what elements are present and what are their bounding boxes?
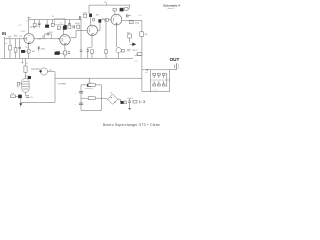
resistor R18 grid leak: [105, 50, 108, 53]
node rail left end: [28, 16, 31, 18]
svg-text:22k: 22k: [57, 29, 60, 31]
component box grid: [93, 19, 95, 21]
wire rail drop left: [88, 5, 90, 13]
wire right vertical to switch: [142, 90, 151, 92]
svg-text:br: br: [111, 91, 113, 94]
switch contacts: [151, 73, 170, 91]
diode D2: [121, 101, 124, 103]
capacitor C9 bars right: [68, 51, 71, 53]
svg-text:footswitch: footswitch: [85, 87, 93, 90]
resistor R2 to ground: [15, 39, 17, 48]
svg-text:OUT: OUT: [170, 57, 180, 62]
footswitch box: [151, 70, 170, 92]
capacitor C8: [69, 20, 71, 24]
capacitor C6 electrolytic: [46, 20, 48, 25]
resistor R13: [125, 8, 128, 11]
dc jack: [139, 100, 141, 103]
wire long horizontal: [55, 77, 142, 79]
wire input: [4, 38, 24, 40]
wire into box: [142, 69, 151, 71]
wire vertical mid: [54, 72, 56, 103]
component volume pot circle: [116, 48, 121, 53]
capacitor C15 electrolytic: [56, 52, 60, 55]
diode D1: [132, 43, 136, 47]
wire right vertical: [101, 85, 103, 111]
wire rail drop right: [129, 5, 131, 8]
resistor R15: [128, 34, 132, 38]
svg-text:C: C: [27, 21, 29, 23]
tube V2b: [111, 14, 122, 25]
svg-text:B: B: [52, 16, 54, 18]
capacitor C16 electrolytic: [28, 76, 31, 79]
wire V1b plate right: [70, 37, 76, 39]
svg-text:0V: 0V: [26, 63, 29, 65]
capacitor C2 cathode electrolytic: [26, 46, 29, 48]
capacitor C1: [19, 39, 21, 48]
svg-text:reg: reg: [49, 69, 53, 72]
capacitor C13: [126, 14, 128, 17]
svg-text:.01: .01: [19, 36, 23, 38]
component trim box: [17, 82, 20, 85]
resistor R5 drop: [34, 20, 36, 24]
svg-text:1W: 1W: [35, 26, 38, 28]
bridge rectifier BR1: [108, 94, 118, 104]
dc input cluster: [118, 98, 121, 100]
ground rail: [1, 57, 134, 59]
capacitor C3b bars: [46, 33, 48, 36]
resistor R1 to ground: [9, 39, 11, 46]
wire mid: [81, 98, 108, 99]
svg-text:9V: 9V: [17, 86, 20, 88]
svg-text:1k5: 1k5: [32, 51, 36, 53]
resistor R11 grid: [105, 19, 108, 22]
wire bottom: [21, 101, 55, 103]
svg-text:470k: 470k: [41, 48, 46, 50]
svg-text:250k: 250k: [75, 23, 80, 25]
svg-text:IC1: IC1: [11, 93, 14, 95]
resistor R19: [24, 66, 27, 72]
svg-text:25k: 25k: [144, 34, 148, 36]
capacitor C12 electrolytic: [120, 8, 124, 11]
resistor R4 grid stopper drop: [38, 47, 40, 51]
cathode network V2a: [91, 50, 94, 54]
wire down to tone: [141, 20, 143, 91]
svg-text:0.1u: 0.1u: [139, 15, 143, 17]
svg-text:68k: 68k: [14, 36, 18, 38]
capacitor C7 electrolytic: [64, 20, 66, 26]
wire: [25, 58, 27, 66]
resistor R12 plate: [113, 8, 116, 11]
svg-text:volume: volume: [135, 55, 143, 57]
svg-text:47u: 47u: [30, 97, 33, 99]
svg-text:9V DC: 9V DC: [127, 98, 134, 100]
capacitor C5: [38, 20, 40, 24]
svg-text:sheet 1: sheet 1: [168, 7, 176, 10]
tube V2a: [87, 25, 97, 35]
capacitor C19 electrolytic: [128, 100, 131, 102]
resistor R6: [52, 20, 54, 24]
svg-text:B+: B+: [105, 2, 108, 4]
tube V1b: [60, 35, 70, 45]
capacitor C20 electrolytic: [18, 95, 21, 98]
output jack J2: [175, 63, 177, 69]
wire V2b plate right: [122, 19, 142, 21]
resistor R22: [133, 100, 137, 103]
input jack J1: [3, 37, 5, 58]
svg-text:IN: IN: [2, 31, 6, 36]
resistor R17: [137, 53, 142, 56]
resistor R21: [88, 97, 95, 100]
svg-text:.022: .022: [49, 32, 54, 34]
capacitor C10: [79, 16, 81, 19]
wire bottom: [81, 109, 102, 111]
resistor R9 series: [68, 25, 71, 28]
node B+ tick: [106, 3, 108, 5]
tube V1a: [24, 34, 34, 44]
capacitor C14: [80, 49, 83, 51]
svg-text:+: +: [75, 93, 77, 95]
component pot P2: [87, 84, 92, 87]
ground symbol 2: [19, 103, 22, 105]
capacitor C21: [26, 95, 29, 97]
resistor R8 cathode: [64, 51, 67, 55]
svg-text:1 2 3: 1 2 3: [153, 89, 157, 91]
wire coupling V1a-V1b: [34, 38, 60, 40]
bottom-left cluster: [25, 95, 27, 97]
svg-text:100k: 100k: [135, 22, 140, 24]
wire B+ top rail: [89, 4, 130, 6]
resistor R23: [11, 95, 16, 98]
wire V2a plate to V2b: [98, 20, 101, 30]
capacitor C17: [79, 90, 83, 92]
svg-text:1M: 1M: [8, 37, 11, 39]
wire left vertical: [80, 85, 82, 111]
svg-text:to fs: to fs: [134, 60, 137, 63]
resistor R7 plate: [58, 26, 61, 29]
ground marker 0V: [21, 58, 23, 62]
svg-text:POWER: POWER: [58, 84, 66, 86]
transistor Q1 circle with dot: [40, 68, 47, 75]
capacitor C4 cathode electrolytic: [55, 52, 59, 55]
svg-text:220: 220: [19, 25, 22, 27]
svg-text:47n: 47n: [96, 14, 99, 16]
svg-text:+: +: [75, 104, 77, 106]
svg-text:Schematic 4: Schematic 4: [163, 3, 180, 7]
tube V3 (pill with stripes): [22, 78, 29, 92]
ground symbol: [129, 106, 131, 108]
svg-text:Bolero Supercharger GT3 + Clea: Bolero Supercharger GT3 + Clean: [103, 123, 160, 127]
component relay box: [55, 19, 66, 25]
capacitor C3 coupling: [42, 35, 44, 39]
wire top: [81, 84, 102, 86]
svg-text:1M: 1M: [132, 50, 135, 52]
svg-text:sw1: sw1: [145, 72, 148, 74]
capacitor C18: [79, 102, 83, 104]
resistor R3 cathode: [27, 49, 30, 53]
resistor R16: [140, 32, 144, 37]
wire B rail (second supply node): [29, 19, 82, 21]
resistor R14: [130, 21, 134, 24]
svg-text:sw: sw: [60, 23, 63, 25]
svg-text:12AX7: 12AX7: [20, 30, 25, 33]
